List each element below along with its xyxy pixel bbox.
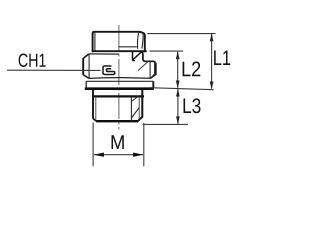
leader line CH1: [7, 69, 101, 71]
M extension line right: [143, 123, 145, 166]
extension line upper middle (L2 top): [150, 50, 184, 52]
seal washer left edge: [85, 81, 87, 88]
stud neck left edge: [92, 90, 94, 119]
dimension L1 arrow up: [210, 33, 214, 41]
dimension L3 line: [177, 89, 179, 124]
body hex CH1 bottom-left chamfer: [83, 75, 89, 79]
stud bottom bold line: [97, 120, 139, 122]
thread minor line left: [95, 98, 97, 121]
logo mark in hex: [103, 66, 115, 75]
body hex CH1 left edge: [82, 58, 84, 75]
top hex nut internal chamfer line: [118, 46, 136, 48]
label M: [112, 135, 124, 149]
body hex extra right diagonal: [150, 73, 156, 79]
top hex nut left facet line: [94, 33, 96, 51]
body hex CH1 top-left chamfer: [83, 54, 89, 59]
body hex CH1 right edge lower: [155, 63, 157, 75]
M extension line left: [92, 123, 94, 167]
thread runout vertical: [130, 97, 132, 121]
stud thread shoulder bold: [93, 95, 144, 97]
dimension M line: [94, 154, 143, 156]
dimension L2 line: [177, 52, 179, 88]
dimension L3 arrow down: [176, 116, 180, 124]
body hex CH1 bottom-right chamfer: [150, 74, 156, 78]
label L3: [184, 98, 201, 113]
dimension L3 arrow up: [176, 89, 180, 97]
body hex CH1 right facet line: [149, 62, 151, 79]
body hex right chamfer thin diagonal: [138, 61, 148, 70]
top hex nut corner arc left curve: [137, 32, 138, 49]
body hex corner foot tick: [133, 60, 136, 62]
extension line top (L1): [147, 33, 215, 35]
thread runout diagonal lower: [131, 107, 139, 118]
top hex nut outline: [93, 32, 145, 52]
body hex CH1 top face arc: [89, 53, 119, 55]
dimension L2 arrow up: [176, 51, 180, 59]
body hex CH1 bottom face: [89, 77, 150, 80]
body hex CH1 left facet line: [88, 54, 90, 78]
stud right edge: [137, 90, 142, 122]
label CH1: [19, 54, 46, 67]
dimension L1 arrow down: [210, 82, 214, 90]
dimension M arrow left: [94, 153, 104, 157]
label L1: [214, 51, 230, 65]
body hex right step profile: [142, 51, 155, 74]
centerline: [118, 25, 120, 130]
stud bottom left chamfer: [93, 119, 97, 122]
thread runout diagonal upper: [131, 97, 138, 102]
body hex CH1 right corner diagonal: [133, 51, 142, 60]
extension line middle (L1 bottom / L2 bottom / L3 top): [149, 88, 213, 90]
dimension M arrow right: [133, 153, 143, 157]
dimension L2 arrow down: [176, 81, 180, 89]
shoulder line under top nut: [92, 50, 147, 52]
seal washer right edge: [152, 81, 154, 88]
seal washer bottom bold line: [85, 87, 154, 90]
top hex nut corner arc right curve: [142, 33, 143, 49]
thread minor line right: [138, 98, 140, 120]
label L2: [183, 62, 201, 77]
body hex CH1 right corner vertical: [132, 52, 134, 61]
extension line bottom (L3 bottom): [143, 123, 188, 125]
seal washer top line: [86, 80, 153, 82]
dimension L1 line: [211, 34, 213, 89]
